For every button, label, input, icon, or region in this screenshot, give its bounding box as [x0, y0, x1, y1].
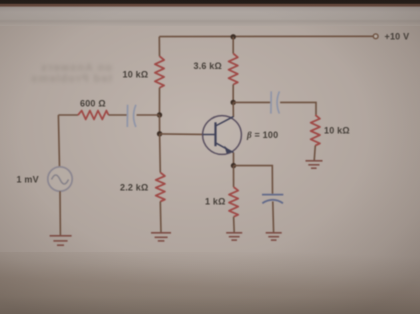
ground (below source): [50, 236, 72, 245]
wire: source column upper: [58, 115, 59, 167]
wire: bias column between junctions: [159, 115, 161, 134]
wire: R2 bottom to ground: [159, 202, 162, 233]
node: rail junction dot: [231, 34, 236, 39]
node: base junction dot: [157, 131, 162, 136]
wire: bias column down to R2: [159, 134, 162, 173]
wire: C2 to load corner: [280, 102, 316, 115]
wire: R3 to C1: [109, 114, 127, 116]
wire: collector node to C2: [233, 101, 270, 103]
wire: emitter node right to bypass branch: [234, 166, 273, 194]
svg-text:1 kΩ: 1 kΩ: [205, 197, 226, 207]
wire: +10V top rail: [159, 35, 373, 37]
capacitor C2 (output coupling): [271, 91, 280, 113]
ground (below C3): [266, 233, 282, 240]
svg-text:10 kΩ: 10 kΩ: [123, 70, 149, 80]
node: collector junction dot: [231, 100, 236, 105]
transistor Q1 emitter arrowhead: [225, 147, 231, 153]
transistor Q1 circle: [203, 116, 242, 155]
transistor Q1 base lead: [203, 134, 216, 136]
svg-text:1 mV: 1 mV: [17, 175, 39, 185]
wire: emitter node down to R6: [233, 166, 235, 187]
svg-text:β = 100: β = 100: [246, 130, 278, 140]
wire: collector node down to transistor: [232, 102, 234, 117]
wire: rail corner down to R1: [158, 37, 160, 57]
capacitor C1 (input coupling): [127, 105, 136, 127]
ground (below R5 load): [306, 161, 323, 168]
source sine wave: [52, 175, 69, 184]
svg-text:3.6 kΩ: 3.6 kΩ: [194, 61, 222, 71]
resistor R3 600 Ohm: [78, 111, 109, 120]
wire: base lead to transistor: [160, 133, 203, 136]
source VS circle (1 mV): [48, 167, 72, 191]
resistor R5 10 kOhm (load): [311, 115, 320, 146]
resistor R6 1 kOhm: [229, 187, 238, 217]
ground (below R2): [151, 233, 171, 241]
svg-text:10 kΩ: 10 kΩ: [324, 126, 350, 136]
transistor Q1 emitter lead: [216, 143, 234, 153]
wire: C3 to ground: [272, 202, 275, 233]
ground (below R6): [226, 233, 242, 240]
svg-text:2.2 kΩ: 2.2 kΩ: [120, 183, 148, 193]
node: input cap junction dot: [157, 112, 162, 117]
transistor Q1 base bar: [214, 122, 216, 146]
wire: source column lower: [59, 191, 61, 235]
wire: source row left segment: [58, 114, 78, 116]
terminal +10V: [373, 34, 378, 39]
wire: C1 to base node: [137, 114, 160, 116]
capacitor C3 (emitter bypass): [262, 195, 283, 204]
wire: R1 bottom to node B1: [159, 88, 161, 115]
wire: rail dot down to R4: [232, 37, 234, 54]
wire: R6 bottom to ground: [233, 217, 236, 233]
wire: emitter down to emitter node: [233, 153, 235, 166]
resistor R2 2.2 kOhm: [156, 173, 165, 202]
node: emitter junction dot: [231, 163, 236, 168]
svg-text:600 Ω: 600 Ω: [80, 98, 106, 108]
wire: R4 bottom to collector node: [232, 85, 234, 103]
svg-text:+10 V: +10 V: [385, 32, 410, 42]
wire: R5 bottom to ground: [314, 146, 315, 161]
resistor R4 3.6 kOhm: [229, 54, 238, 85]
transistor Q1 collector lead: [216, 117, 234, 126]
resistor R1 10 kOhm (bias upper): [155, 56, 164, 87]
